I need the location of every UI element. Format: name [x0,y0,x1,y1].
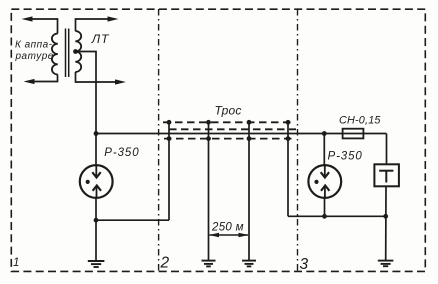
node: hanger 1 bottom dot [167,136,172,141]
label "К аппаратуре" [15,40,54,63]
cable Трос upper strand [163,121,293,123]
node: hanger 1 top dot [167,120,172,125]
wire: hanger 1 vertical [168,122,170,220]
wire: primary bottom terminal arrow to equipment [24,75,58,85]
wire: left arrester lower lead to ground [95,198,97,261]
wire: right arrester lower lead [324,198,326,216]
transformer ЛТ secondary winding [75,31,81,72]
wire: main horizontal bus [96,133,387,135]
ground: middle electrode 2 [242,261,256,267]
wire: hanger 3 vertical [248,122,250,260]
svg-text:3: 3 [300,256,309,273]
device T box [374,164,399,186]
cable Трос middle strand [169,128,296,130]
wire: secondary bottom terminal arrow to line [76,72,127,85]
node: junction bus to right arrester [322,131,327,136]
wire: zone 3 bottom conductor [288,215,386,217]
ground: middle electrode 1 [202,261,216,267]
wire: hanger 2 vertical [208,122,210,260]
transformer ЛТ core [66,29,69,78]
section divider between zone 1 and zone 2 [158,9,160,271]
section divider between zone 2 and zone 3 [297,9,299,271]
node A: bus junction left [94,131,99,136]
arrester P-350 right [308,165,341,198]
wire: loop bottom conductor [96,219,169,221]
node: secondary midpoint tap [73,49,78,54]
node: hanger 3 bottom dot [247,136,252,141]
ground: left electrode [88,261,105,267]
svg-text:Р-350: Р-350 [328,150,363,162]
wire: secondary top terminal arrow to line [76,16,119,31]
svg-text:250 м: 250 м [211,222,244,234]
node: hanger 3 top dot [247,120,252,125]
node: hanger 4 bottom dot [286,136,291,141]
arrester P-350 left [80,165,113,198]
wire: hanger 4 vertical [287,122,289,216]
svg-text:ЛТ: ЛТ [91,32,110,46]
svg-text:К аппа-: К аппа- [15,40,53,51]
svg-text:ратуре: ратуре [15,51,54,62]
wire: tap down to bus [76,52,97,134]
svg-text:1: 1 [13,257,19,269]
cable Трос lower strand [164,138,293,140]
node: junction right arrester bottom [322,214,327,219]
svg-text:2: 2 [160,255,170,272]
node: junction T box bottom [383,214,388,219]
svg-text:Р-350: Р-350 [104,147,139,159]
node: junction left bottom [94,218,99,223]
svg-text:СН-0,15: СН-0,15 [339,114,381,126]
dimension: 250 m span arrows [209,233,249,238]
wire: right arrester upper lead [323,134,325,166]
fuse СН-0,15 [343,129,364,139]
node: hanger 2 bottom dot [206,136,211,141]
node: hanger 4 top dot [286,120,291,125]
wire: primary top terminal arrow to equipment [22,16,58,33]
ground: right electrode [378,261,394,267]
node: hanger 2 top dot [206,120,211,125]
transformer ЛТ primary winding [52,34,58,75]
svg-text:Трос: Трос [215,104,242,118]
wire: fuse output down to T box [386,134,388,165]
wire: T box bottom lead to ground [385,186,387,260]
wire: left arrester upper lead [95,134,97,166]
